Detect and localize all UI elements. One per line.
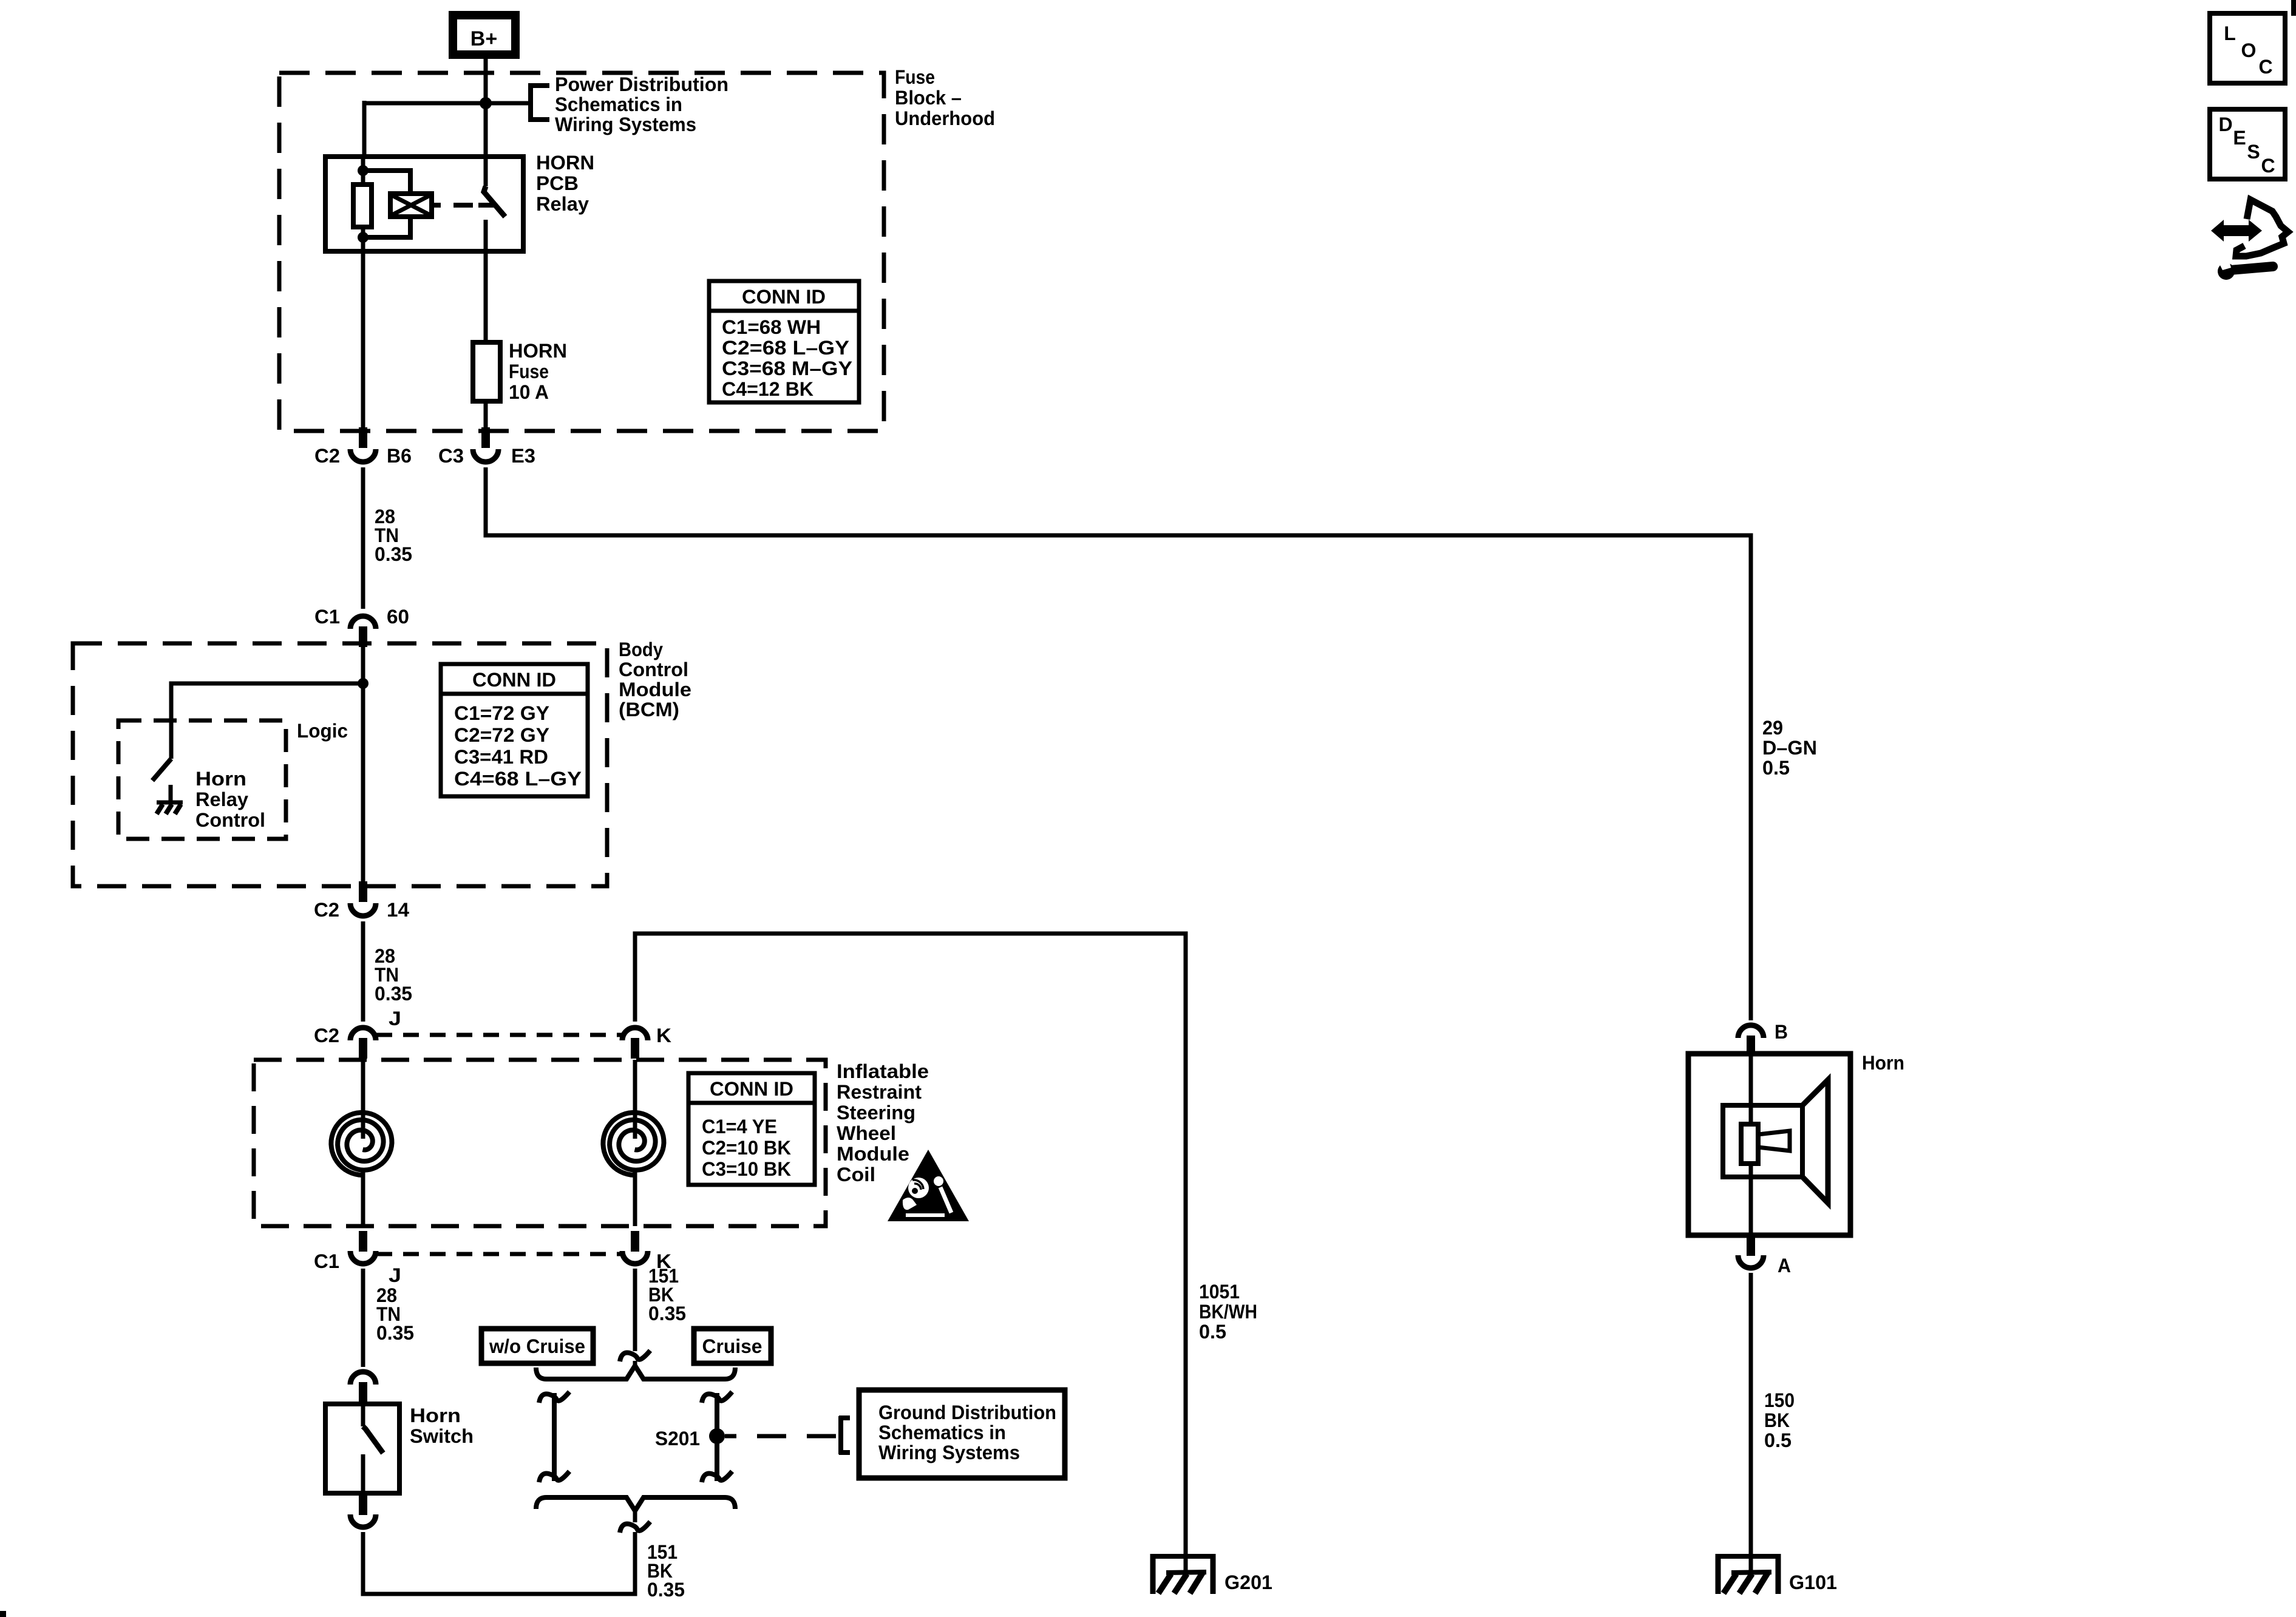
splice S201: [709, 1428, 725, 1444]
svg-text:L: L: [2224, 22, 2236, 44]
label 151 BK 0.35 lower: [647, 1541, 685, 1601]
svg-text:C2=10 BK: C2=10 BK: [702, 1137, 791, 1159]
svg-text:J: J: [389, 1008, 401, 1029]
svg-text:C1: C1: [314, 606, 340, 628]
svg-text:Coil: Coil: [837, 1164, 875, 1185]
connector A horn: [1738, 1235, 1764, 1268]
svg-text:Horn: Horn: [1862, 1052, 1904, 1074]
svg-text:S201: S201: [655, 1428, 700, 1449]
coil left spiral: [331, 1113, 392, 1175]
label Body Control Module: [619, 639, 691, 720]
airbag warning icon: [888, 1150, 969, 1221]
connector K bottom: [622, 1231, 648, 1264]
relay node bottom: [358, 232, 369, 243]
wire to relay coil: [364, 101, 486, 157]
label HORN PCB Relay: [536, 152, 594, 215]
wire 28 TN lower: [361, 1269, 365, 1367]
horn relay control ground: [157, 802, 183, 814]
S201 bracket: [839, 1416, 850, 1454]
coil left wire in: [361, 1060, 365, 1139]
svg-text:C3: C3: [438, 445, 464, 467]
breakout symbol bottom: [620, 1522, 650, 1533]
svg-text:60: 60: [387, 606, 409, 628]
coil right wire in: [633, 1060, 637, 1139]
wire K to cruise breakout: [633, 1269, 637, 1351]
label HORN Fuse 10A: [509, 340, 567, 403]
page artifact mark bottom left: [0, 1611, 6, 1617]
svg-text:C3=68 M–GY: C3=68 M–GY: [722, 358, 852, 379]
svg-text:Module: Module: [837, 1143, 909, 1165]
junction node fuse block: [480, 97, 492, 109]
label C2 (14): [314, 899, 339, 921]
svg-text:Horn: Horn: [195, 768, 246, 790]
svg-text:w/o Cruise: w/o Cruise: [489, 1335, 585, 1357]
svg-text:Power Distribution: Power Distribution: [555, 73, 729, 95]
svg-text:E: E: [2233, 127, 2246, 149]
resistor relay coil: [353, 185, 372, 227]
svg-text:0.35: 0.35: [376, 1322, 414, 1344]
svg-text:C1=68 WH: C1=68 WH: [722, 316, 821, 338]
svg-text:0.5: 0.5: [1764, 1429, 1792, 1451]
icon DESC box: [2210, 109, 2285, 179]
wire 28 TN upper: [361, 467, 365, 609]
svg-text:Schematics in: Schematics in: [555, 93, 682, 115]
svg-text:C3=41 RD: C3=41 RD: [454, 746, 548, 768]
connector K top: [622, 1028, 648, 1059]
wire B+ to relay: [484, 55, 488, 157]
svg-text:10 A: 10 A: [509, 381, 549, 403]
svg-text:Control: Control: [619, 659, 688, 680]
svg-text:Relay: Relay: [195, 788, 248, 810]
svg-text:Inflatable: Inflatable: [837, 1060, 929, 1082]
svg-text:Logic: Logic: [297, 720, 348, 742]
svg-text:C4=68 L–GY: C4=68 L–GY: [454, 768, 582, 790]
svg-text:Horn: Horn: [410, 1405, 461, 1426]
horn switch box: [325, 1404, 399, 1493]
svg-text:0.5: 0.5: [1762, 757, 1790, 779]
svg-text:C3=10 BK: C3=10 BK: [702, 1158, 791, 1180]
svg-text:29: 29: [1762, 717, 1783, 739]
label C2 (J): [314, 1025, 339, 1046]
BCM junction node: [358, 678, 369, 689]
svg-text:A: A: [1778, 1255, 1791, 1276]
label K top: [656, 1025, 671, 1046]
svg-text:C: C: [2261, 155, 2275, 177]
svg-text:150: 150: [1764, 1389, 1795, 1411]
svg-text:C2: C2: [314, 1025, 339, 1046]
label G201: [1224, 1571, 1272, 1593]
label C2 (B6): [314, 445, 340, 467]
svg-text:C2=72 GY: C2=72 GY: [454, 724, 549, 746]
svg-text:D–GN: D–GN: [1762, 737, 1817, 759]
svg-text:Wheel: Wheel: [837, 1122, 896, 1144]
wire 29 D-GN: [486, 467, 1751, 1020]
label 60: [387, 606, 409, 628]
connector dashed line J-K bottom: [376, 1252, 622, 1256]
connector B horn: [1738, 1025, 1764, 1056]
option box Cruise: [694, 1329, 771, 1363]
wire brace to breakout: [633, 1508, 637, 1522]
label B: [1775, 1021, 1788, 1043]
connector dashed line J-K top: [376, 1033, 622, 1037]
svg-text:BK: BK: [1764, 1409, 1790, 1431]
svg-text:0.5: 0.5: [1199, 1321, 1226, 1343]
svg-text:C1=4 YE: C1=4 YE: [702, 1116, 777, 1137]
wire breakout to brace: [633, 1361, 637, 1368]
conn id table steering module: [688, 1073, 815, 1185]
svg-text:Module: Module: [619, 679, 691, 700]
svg-text:C2: C2: [314, 445, 340, 467]
label C1 (J): [314, 1250, 339, 1272]
svg-text:Relay: Relay: [536, 193, 589, 215]
svg-text:1051: 1051: [1199, 1281, 1240, 1303]
label Inflatable Restraint Steering Wheel Module Coil: [837, 1060, 929, 1185]
label Power Distribution Schematics: [555, 73, 729, 135]
power symbol B+: [453, 15, 515, 55]
relay actuate link: [432, 203, 495, 208]
svg-text:0.35: 0.35: [375, 543, 412, 565]
svg-text:CONN ID: CONN ID: [472, 669, 556, 691]
wire relay to fuse: [484, 251, 488, 345]
svg-text:Wiring Systems: Wiring Systems: [878, 1442, 1020, 1463]
w/o cruise wire bar: [539, 1392, 569, 1482]
label Fuse Block - Underhood: [895, 66, 995, 129]
svg-text:Switch: Switch: [410, 1425, 474, 1447]
brace top: [536, 1366, 735, 1379]
page artifact mark top right: [2291, 0, 2296, 16]
svg-text:B6: B6: [387, 445, 412, 467]
svg-text:C1: C1: [314, 1250, 339, 1272]
label C1 (60): [314, 606, 340, 628]
relay box: [325, 157, 523, 251]
coil right spiral: [603, 1113, 664, 1175]
svg-text:Body: Body: [619, 639, 663, 660]
connector C2-B6: [350, 427, 376, 462]
svg-text:C2: C2: [314, 899, 339, 921]
horn switch connector top: [350, 1372, 376, 1403]
label 150 BK 0.5: [1764, 1389, 1795, 1451]
label G101: [1789, 1571, 1837, 1593]
conn id table BCM: [441, 664, 588, 796]
connector C1-J: [350, 1231, 376, 1264]
wire 1051 BK/WH: [635, 934, 1186, 1556]
label 29 D-GN 0.5: [1762, 717, 1817, 779]
label 28 TN 0.35 middle: [375, 945, 412, 1005]
wire relay to C2-B6: [361, 251, 365, 429]
wire to horn relay control: [171, 683, 363, 759]
svg-text:HORN: HORN: [509, 340, 567, 362]
svg-text:C4=12 BK: C4=12 BK: [722, 378, 813, 400]
BCM box: [73, 643, 607, 886]
connector C1-60: [350, 616, 376, 647]
conn id table fuse block: [709, 281, 859, 402]
label S201: [655, 1428, 700, 1449]
wire 28 TN middle: [361, 921, 365, 1022]
label K bottom: [656, 1250, 671, 1272]
coil right wire out: [633, 1171, 637, 1226]
svg-text:Wiring Systems: Wiring Systems: [555, 114, 696, 135]
option box w/o Cruise: [481, 1329, 593, 1363]
wire fuse to C3-E3: [484, 401, 488, 429]
svg-text:0.35: 0.35: [375, 983, 412, 1005]
svg-text:Fuse: Fuse: [895, 66, 935, 88]
label Horn Switch: [410, 1405, 474, 1447]
label Horn Relay Control: [195, 768, 265, 831]
label E3: [511, 445, 535, 467]
label A: [1778, 1255, 1791, 1276]
label B6: [387, 445, 412, 467]
icon diagnostic arrows and wrench: [2211, 200, 2288, 280]
svg-text:Cruise: Cruise: [702, 1335, 763, 1357]
label 1051 BK/WH 0.5: [1199, 1281, 1257, 1343]
connector C3-E3: [473, 427, 498, 462]
brace bottom: [536, 1497, 735, 1511]
wire 150 BK: [1749, 1273, 1753, 1556]
ground G101: [1716, 1554, 1781, 1594]
svg-text:0.35: 0.35: [647, 1579, 685, 1601]
breakout symbol top: [620, 1351, 650, 1361]
svg-text:B: B: [1775, 1021, 1788, 1043]
ground G201: [1150, 1554, 1215, 1594]
svg-text:Fuse: Fuse: [509, 361, 549, 382]
svg-text:Underhood: Underhood: [895, 107, 995, 129]
svg-text:0.35: 0.35: [648, 1303, 686, 1324]
svg-text:PCB: PCB: [536, 172, 579, 194]
cruise wire bar: [702, 1392, 732, 1482]
svg-text:O: O: [2241, 39, 2257, 61]
svg-text:Steering: Steering: [837, 1102, 915, 1124]
svg-text:Block –: Block –: [895, 87, 962, 109]
svg-text:G101: G101: [1789, 1571, 1837, 1593]
label 28 TN 0.35 upper: [375, 506, 412, 565]
label 151 BK 0.35 upper: [648, 1265, 686, 1324]
label J top: [389, 1008, 401, 1029]
svg-text:HORN: HORN: [536, 152, 594, 174]
svg-text:CONN ID: CONN ID: [742, 286, 826, 308]
label C3: [438, 445, 464, 467]
S201 dashed link: [725, 1434, 836, 1439]
svg-text:Control: Control: [195, 809, 265, 831]
relay diode box: [390, 194, 432, 217]
coil left wire out: [361, 1171, 365, 1226]
svg-text:E3: E3: [511, 445, 535, 467]
label Logic: [297, 720, 348, 742]
ground distribution box: [859, 1390, 1065, 1478]
svg-text:Schematics in: Schematics in: [878, 1422, 1006, 1443]
svg-text:B+: B+: [470, 27, 497, 50]
svg-text:Ground Distribution: Ground Distribution: [878, 1402, 1056, 1423]
svg-text:G201: G201: [1224, 1571, 1272, 1593]
relay switch: [484, 157, 505, 251]
relay suppressor branch: [363, 171, 410, 237]
svg-text:C1=72 GY: C1=72 GY: [454, 702, 549, 724]
svg-text:Restraint: Restraint: [837, 1081, 922, 1103]
label 28 TN 0.35 lower: [376, 1284, 414, 1344]
svg-text:14: 14: [387, 899, 409, 921]
horn switch connector bottom: [350, 1494, 376, 1527]
relay coil wire: [361, 157, 365, 251]
relay node top: [358, 165, 369, 176]
reference bracket power distribution: [486, 84, 549, 121]
connector C2-14: [350, 881, 376, 916]
horn switch contacts: [363, 1404, 383, 1493]
label Horn: [1862, 1052, 1904, 1074]
label 14: [387, 899, 409, 921]
svg-text:K: K: [656, 1025, 671, 1046]
svg-text:C2=68 L–GY: C2=68 L–GY: [722, 337, 849, 359]
svg-text:BK/WH: BK/WH: [1199, 1301, 1257, 1323]
icon LOC box: [2210, 13, 2285, 83]
svg-text:D: D: [2218, 114, 2232, 135]
connector C2-J: [350, 1028, 376, 1059]
svg-text:(BCM): (BCM): [619, 699, 679, 720]
horn box: [1688, 1054, 1850, 1235]
horn relay control switch: [152, 759, 171, 802]
horn speaker symbol: [1723, 1054, 1828, 1235]
svg-text:J: J: [389, 1264, 401, 1286]
logic box: [118, 720, 286, 839]
wire 151 BK bottom: [363, 1532, 635, 1594]
svg-text:CONN ID: CONN ID: [710, 1078, 793, 1100]
wire BCM internal: [361, 643, 365, 883]
label J bottom: [389, 1264, 401, 1286]
fuse HORN 10A: [473, 342, 500, 401]
fuse block box: [279, 73, 884, 431]
steering wheel module box: [254, 1060, 826, 1226]
svg-text:S: S: [2247, 141, 2260, 163]
svg-text:C: C: [2258, 56, 2272, 78]
